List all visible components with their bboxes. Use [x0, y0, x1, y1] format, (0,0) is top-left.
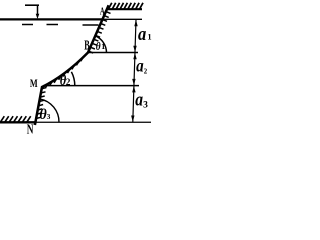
svg-text:N: N	[27, 123, 34, 136]
svg-text:1: 1	[147, 31, 151, 41]
svg-text:a: a	[135, 89, 143, 110]
svg-text:a: a	[138, 23, 146, 44]
svg-text:M: M	[30, 78, 38, 91]
svg-text:2: 2	[66, 78, 71, 88]
svg-text:B: B	[84, 39, 90, 54]
svg-text:3: 3	[47, 112, 51, 121]
svg-text:2: 2	[144, 68, 148, 75]
svg-text:a: a	[136, 55, 144, 75]
svg-text:3: 3	[143, 101, 148, 111]
svg-text:A: A	[100, 5, 106, 17]
svg-text:1: 1	[101, 42, 105, 51]
